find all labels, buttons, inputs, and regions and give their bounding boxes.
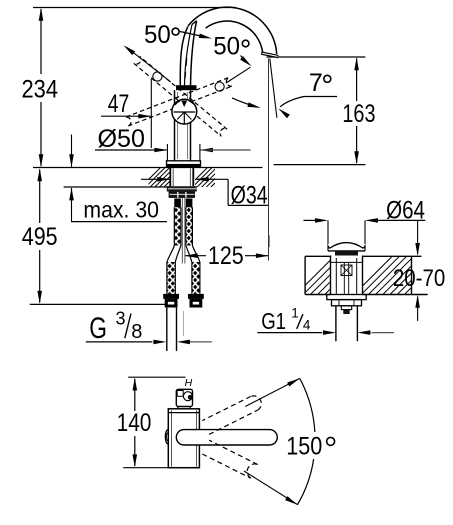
svg-text:20-70: 20-70 (393, 265, 445, 292)
svg-text:150: 150 (286, 432, 322, 460)
svg-text:50: 50 (213, 32, 240, 60)
svg-text:3: 3 (116, 308, 126, 328)
svg-text:7: 7 (309, 69, 323, 97)
svg-text:Ø34: Ø34 (231, 181, 268, 209)
svg-text:1: 1 (291, 305, 299, 320)
svg-text:47: 47 (108, 90, 130, 118)
svg-text:Ø50: Ø50 (98, 125, 146, 153)
svg-text:4: 4 (303, 318, 311, 333)
svg-text:G1: G1 (261, 308, 286, 334)
svg-text:125: 125 (208, 242, 244, 270)
svg-text:495: 495 (22, 223, 58, 251)
svg-text:50: 50 (144, 21, 171, 49)
svg-text:G: G (89, 312, 107, 345)
svg-text:140: 140 (117, 409, 152, 437)
svg-text:H: H (185, 377, 193, 389)
svg-text:max. 30: max. 30 (83, 196, 159, 222)
svg-text:8: 8 (131, 321, 142, 343)
svg-text:163: 163 (342, 100, 375, 128)
svg-text:234: 234 (22, 76, 59, 104)
